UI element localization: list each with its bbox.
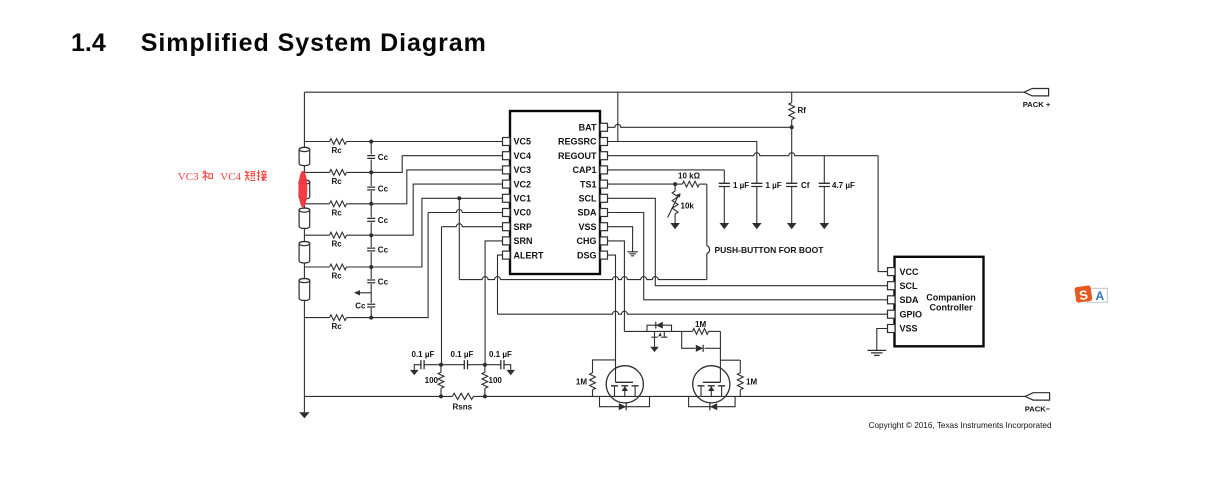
capacitor Cc 1	[367, 155, 376, 160]
pin REGSRC	[600, 138, 608, 146]
wire VC2 net	[371, 184, 502, 235]
svg-text:VC2: VC2	[514, 179, 532, 189]
section heading	[71, 31, 487, 56]
pin VC4	[503, 152, 511, 160]
wire: battery stack vertical	[303, 92, 305, 396]
svg-text:1M: 1M	[695, 320, 706, 329]
capacitor Cf on BAT	[791, 127, 793, 183]
svg-text:SCL: SCL	[900, 281, 919, 291]
svg-text:VCC: VCC	[900, 267, 920, 277]
svg-text:Cc: Cc	[378, 216, 389, 225]
wire GPIO row to companion controller (hops over DSG/CHG verticals)	[498, 311, 888, 314]
capacitor Cc 4	[367, 247, 376, 252]
svg-text:VC3: VC3	[514, 165, 532, 175]
svg-text:SRN: SRN	[514, 236, 533, 246]
pin DSG	[600, 251, 608, 259]
capacitor 0.1uF left with ground	[424, 364, 441, 366]
svg-text:1M: 1M	[576, 378, 587, 387]
companion pin SDA	[888, 296, 896, 304]
pin SRN	[503, 237, 511, 245]
junction dot tap 2	[369, 170, 373, 174]
svg-text:Cc: Cc	[378, 185, 389, 194]
MOSFET Q1 internals	[616, 381, 634, 383]
wire VC4 net	[371, 156, 502, 173]
resistor Rsns	[452, 393, 473, 399]
resistor 100 left	[440, 365, 442, 373]
junction dot tap 4	[369, 233, 373, 237]
svg-text:10k: 10k	[681, 202, 695, 211]
svg-text:Rc: Rc	[332, 146, 343, 155]
capacitor Cc 6	[367, 303, 376, 308]
watermark logo blue A box	[1088, 288, 1108, 302]
capacitor 0.1uF middle	[441, 364, 464, 366]
svg-text:1 µF: 1 µF	[766, 181, 782, 190]
pin REGOUT	[600, 152, 608, 160]
pin TS1	[600, 180, 608, 188]
wire: bottom PACK- rail right segment	[473, 395, 1025, 397]
wire CHG net (hops drawn on crossing rows)	[608, 241, 624, 332]
junction dots on PACK- rail	[439, 394, 443, 398]
svg-text:Rc: Rc	[332, 240, 343, 249]
pin CHG	[600, 237, 608, 245]
wire right gate 1M branch	[720, 359, 740, 361]
svg-text:1 µF: 1 µF	[733, 181, 749, 190]
wire SRN net (down to sense filter)	[485, 241, 502, 365]
junction dot on VC1 net	[457, 196, 461, 200]
wire push-button net from VC1 junction (hops over SRN, ALERT, DSG, CHG, SDA, SCL verticals)	[458, 198, 460, 279]
companion pin GPIO	[888, 310, 896, 318]
battery cell 1	[299, 147, 310, 165]
wire: top PACK+ rail	[304, 91, 1024, 93]
svg-text:Cf: Cf	[801, 181, 810, 190]
svg-text:A: A	[1095, 289, 1104, 303]
junction dots on 0.1uF row	[439, 363, 443, 367]
thermistor 10k to ground	[674, 184, 676, 191]
push-button for boot	[706, 184, 708, 246]
pin VC5	[503, 138, 511, 146]
wire DSG net to left MOSFET gate	[608, 255, 616, 382]
svg-text:ALERT: ALERT	[514, 250, 544, 260]
svg-text:Rc: Rc	[332, 272, 343, 281]
PACK- connector	[1025, 393, 1050, 400]
svg-text:VC1: VC1	[514, 194, 532, 204]
wire: Cc filter bus vertical	[370, 142, 372, 318]
junction dot TS1	[673, 182, 677, 186]
capacitor Cc 5	[367, 279, 376, 284]
svg-text:PACK−: PACK−	[1025, 404, 1051, 413]
resistor Rc (tap 4)	[304, 234, 329, 236]
wire REGOUT net to companion VCC (hops over 1uF and Cf verticals)	[608, 153, 878, 156]
pin BAT	[600, 123, 608, 131]
red highlight oval over cell 2	[299, 171, 308, 207]
svg-text:4.7 µF: 4.7 µF	[832, 181, 855, 190]
PACK+ connector	[1024, 89, 1049, 96]
wire REGSRC net from PACK+ rail	[617, 92, 619, 141]
svg-text:SCL: SCL	[579, 194, 598, 204]
capacitor 4.7uF on REGOUT	[823, 156, 825, 184]
pin VC1	[503, 194, 511, 202]
companion controller body	[895, 257, 984, 347]
junction dot BAT-Rf-Cf	[790, 125, 794, 129]
pin CAP1	[600, 166, 608, 174]
svg-text:SDA: SDA	[577, 208, 597, 218]
resistor Rc (tap 1)	[304, 141, 329, 143]
wire VC1 net	[371, 198, 502, 267]
wire VC3 net	[371, 170, 502, 204]
svg-text:Rc: Rc	[332, 208, 343, 217]
svg-text:Rf: Rf	[798, 106, 807, 115]
svg-text:Cc: Cc	[378, 246, 389, 255]
wire ALERT net (to GPIO row)	[498, 255, 503, 314]
svg-text:0.1 µF: 0.1 µF	[489, 350, 512, 359]
svg-text:100: 100	[425, 376, 439, 385]
svg-text:Rc: Rc	[332, 177, 343, 186]
resistor 1M at Q2 gate	[739, 360, 741, 373]
battery cell 4	[299, 242, 310, 264]
MOSFET Q2 (CHG) circle	[693, 366, 730, 403]
battery cell 3	[299, 208, 310, 228]
wire to right MOSFET gate	[719, 331, 721, 382]
resistor Rc (tap 3)	[304, 203, 329, 205]
svg-text:VSS: VSS	[900, 324, 918, 334]
wire CHG drive horizontal	[624, 330, 681, 332]
resistor 10 kOhm	[675, 183, 682, 185]
capacitor Cc 2	[367, 186, 376, 191]
MOSFET Q1 body diode	[600, 396, 650, 406]
svg-text:CHG: CHG	[577, 236, 597, 246]
svg-text:REGOUT: REGOUT	[558, 151, 597, 161]
svg-text:GPIO: GPIO	[900, 309, 923, 319]
svg-text:VC5: VC5	[514, 137, 532, 147]
wire VSS net to ground	[608, 227, 633, 252]
resistor Rc (tap 6)	[304, 317, 329, 319]
svg-text:0.1 µF: 0.1 µF	[451, 350, 474, 359]
wire VC0 net (hop over VC1 vertical)	[371, 213, 428, 318]
svg-text:TS1: TS1	[580, 179, 597, 189]
MOSFET Q1 (DSG) circle	[606, 366, 643, 403]
junction dot tap 3	[369, 202, 373, 206]
companion pin VCC	[888, 268, 896, 276]
small FET to ground in CHG drive	[655, 331, 665, 337]
svg-text:Cc: Cc	[378, 153, 389, 162]
wire BAT net (hop over REGSRC vertical)	[608, 124, 792, 127]
svg-text:VC3: VC3	[178, 171, 199, 183]
diode in CHG drive	[682, 331, 696, 348]
svg-text:Controller: Controller	[929, 303, 972, 313]
capacitor 1uF on CAP1	[723, 170, 725, 183]
svg-text:100: 100	[489, 376, 503, 385]
svg-text:VC4: VC4	[514, 151, 532, 161]
pin VC0	[503, 209, 511, 217]
svg-text:VC0: VC0	[514, 208, 532, 218]
wire SCL net to companion	[608, 198, 888, 285]
capacitor 1uF on REGSRC (hop over REGOUT row drawn on row)	[756, 151, 758, 184]
battery cell 5	[299, 279, 310, 301]
pin SDA	[600, 209, 608, 217]
wire TS1 net	[608, 183, 675, 185]
junction dot tap 6	[369, 316, 373, 320]
svg-text:SRP: SRP	[514, 222, 533, 232]
pin SCL	[600, 194, 608, 202]
wire: bottom PACK- rail left segment	[304, 395, 452, 397]
svg-text:Companion: Companion	[926, 292, 976, 302]
svg-text:VSS: VSS	[578, 222, 596, 232]
svg-text:BAT: BAT	[579, 123, 597, 133]
resistor 100 right	[484, 365, 486, 373]
earth ground at companion VSS	[868, 350, 887, 355]
MOSFET Q2 internals	[703, 381, 721, 383]
wire SDA net to companion	[608, 213, 888, 300]
svg-text:REGSRC: REGSRC	[558, 137, 597, 147]
wire VC5 net	[371, 141, 502, 143]
arrow marker on Cc bus pointing left	[360, 292, 372, 294]
battery cell 2	[299, 180, 310, 199]
capacitor 0.1uF right with ground	[485, 364, 501, 366]
pin ALERT	[503, 251, 511, 259]
wire CAP1 net	[608, 169, 724, 171]
svg-text:Copyright © 2016, Texas Instru: Copyright © 2016, Texas Instruments Inco…	[869, 421, 1052, 430]
capacitor Cc 3	[367, 217, 376, 222]
svg-text:Cc: Cc	[355, 302, 366, 311]
svg-text:10 kΩ: 10 kΩ	[678, 172, 701, 181]
junction dot tap 5	[369, 265, 373, 269]
wire SRP net (hop over VC1 vertical, down to sense filter)	[441, 227, 443, 365]
svg-text:0.1 µF: 0.1 µF	[412, 350, 435, 359]
resistor 1M at Q1 gate	[593, 360, 616, 373]
bypass diode loop over small FET	[647, 325, 672, 331]
svg-text:DSG: DSG	[577, 250, 597, 260]
svg-text:SDA: SDA	[900, 295, 920, 305]
resistor Rc (tap 5)	[304, 266, 329, 268]
svg-text:Cc: Cc	[378, 277, 389, 286]
junction dot tap 1	[369, 140, 373, 144]
resistor Rc (tap 2)	[304, 171, 329, 173]
earth ground at IC VSS	[627, 252, 638, 256]
wire companion VSS to ground	[877, 329, 888, 351]
pin VSS	[600, 223, 608, 231]
ground symbol at battery stack bottom	[303, 396, 305, 412]
svg-text:CAP1: CAP1	[572, 165, 596, 175]
svg-text:PUSH-BUTTON FOR BOOT: PUSH-BUTTON FOR BOOT	[715, 245, 825, 255]
pin VC3	[503, 166, 511, 174]
svg-text:PACK +: PACK +	[1023, 100, 1051, 109]
svg-text:VC4: VC4	[220, 171, 241, 183]
companion pin VSS	[888, 325, 896, 333]
watermark logo orange S	[1074, 285, 1092, 303]
svg-text:Rc: Rc	[332, 322, 343, 331]
svg-text:1M: 1M	[746, 378, 757, 387]
companion pin SCL	[888, 282, 896, 290]
MOSFET Q2 body diode	[689, 396, 736, 406]
IC bq769x0 body	[510, 111, 600, 274]
resistor 1M in CHG drive	[682, 330, 693, 332]
pin VC2	[503, 180, 511, 188]
svg-text:Rsns: Rsns	[453, 403, 473, 412]
pin SRP	[503, 223, 511, 231]
resistor Rf	[791, 92, 793, 102]
